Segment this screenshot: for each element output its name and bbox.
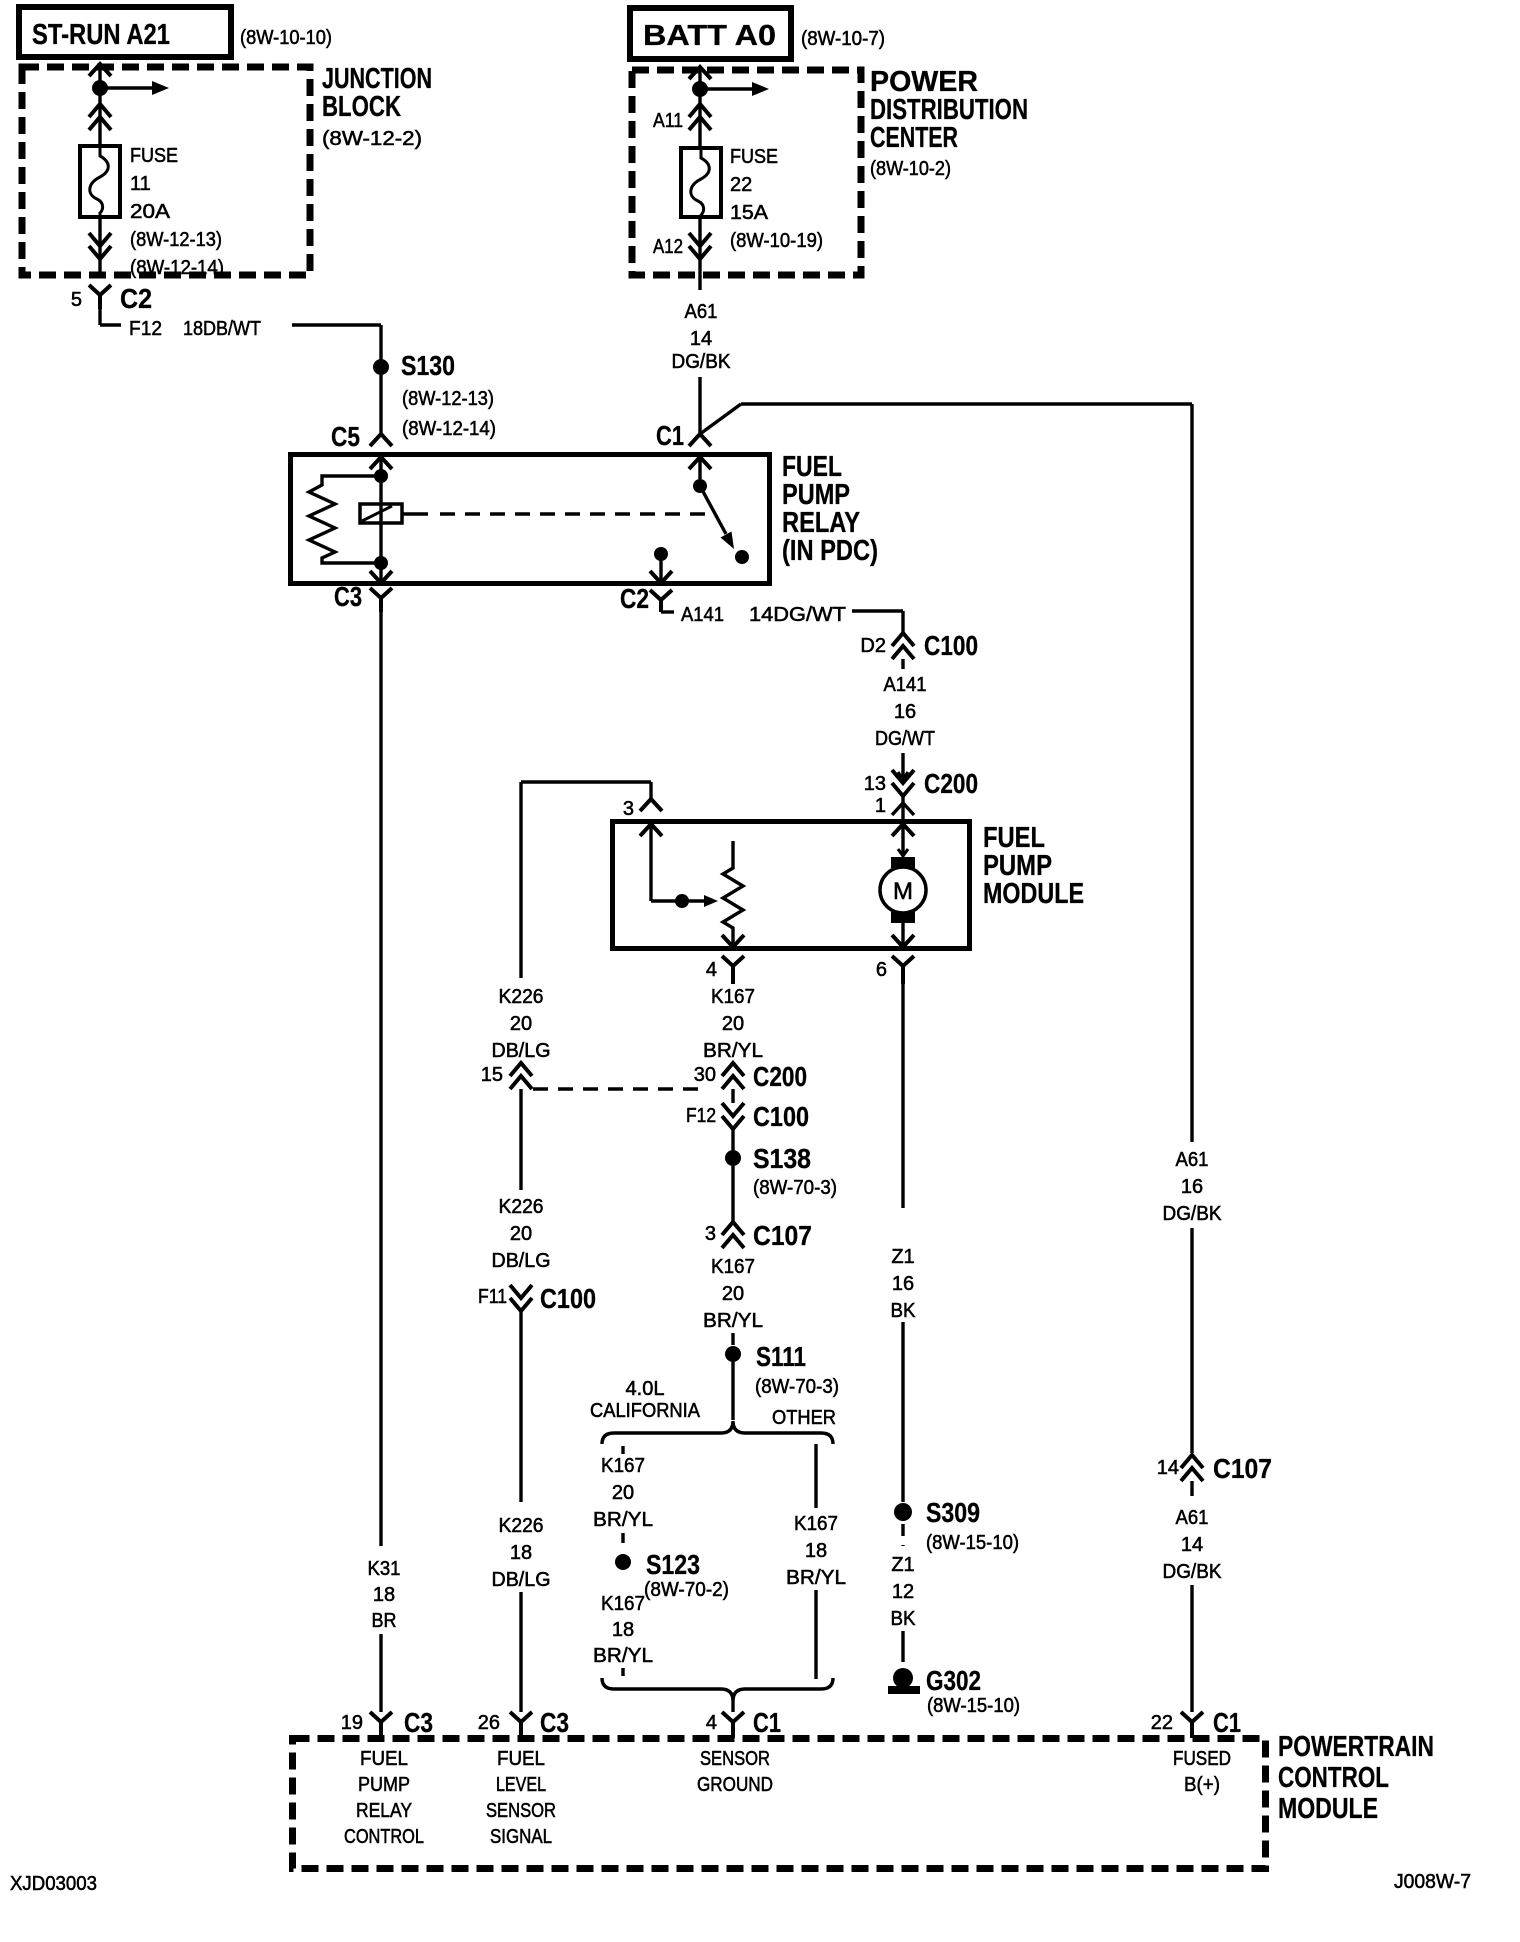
wire label DG/BK lower: [1163, 1561, 1223, 1583]
label PUMP at PCM pin 19: [358, 1774, 410, 1796]
wire K31 from relay C3 down: [379, 612, 382, 1546]
fuse 11 body: [80, 146, 120, 217]
svg-text:(IN PDC): (IN PDC): [782, 535, 878, 567]
svg-text:16: 16: [892, 1273, 914, 1295]
svg-text:J008W-7: J008W-7: [1394, 1871, 1471, 1893]
svg-text:A61: A61: [1176, 1507, 1209, 1529]
wire S130 to relay C5: [379, 375, 382, 434]
wire label 16: [894, 701, 916, 723]
svg-text:22: 22: [730, 174, 752, 196]
connector below PCM pin 26: [510, 1712, 532, 1738]
svg-text:Z1: Z1: [891, 1246, 914, 1268]
wire label BR/YL below S123: [593, 1645, 653, 1667]
pin 30 label: [694, 1064, 716, 1086]
svg-text:(8W-12-13): (8W-12-13): [130, 229, 222, 251]
svg-text:18DB/WT: 18DB/WT: [183, 318, 261, 340]
svg-text:PUMP: PUMP: [358, 1774, 410, 1796]
label LEVEL at PCM pin 26: [496, 1774, 546, 1796]
svg-text:F12: F12: [686, 1105, 716, 1127]
dashed connector link 15 to 30: [533, 1087, 708, 1090]
svg-text:5: 5: [71, 289, 82, 311]
connector chevrons C200 pin 13: [892, 770, 914, 796]
svg-text:FUEL: FUEL: [360, 1748, 408, 1770]
wire relay C2 contact to pin: [659, 554, 662, 583]
svg-text:A61: A61: [685, 301, 718, 323]
wire label DB/LG second: [492, 1250, 551, 1272]
wire label K226 third: [499, 1515, 544, 1537]
connector chevrons pin 15: [510, 1063, 532, 1089]
svg-text:S309: S309: [926, 1497, 980, 1528]
reference (8W-12-14): [130, 257, 224, 279]
svg-text:(8W-12-2): (8W-12-2): [322, 128, 422, 150]
dashed wire into S111: [731, 1333, 734, 1345]
label 4.0L: [626, 1378, 665, 1400]
svg-text:BR: BR: [372, 1610, 397, 1632]
wire label DG/WT: [875, 728, 935, 750]
svg-text:SENSOR: SENSOR: [700, 1748, 770, 1770]
wire label DG/BK: [672, 351, 732, 373]
pin 22 label: [1151, 1712, 1173, 1734]
svg-text:C107: C107: [1213, 1453, 1272, 1484]
svg-text:(8W-12-14): (8W-12-14): [402, 418, 496, 440]
label MODULE at module: [983, 878, 1084, 910]
svg-text:CONTROL: CONTROL: [344, 1826, 424, 1848]
svg-text:C3: C3: [404, 1707, 433, 1738]
wire below C107 pin 14: [1190, 1481, 1193, 1496]
svg-text:(8W-70-2): (8W-70-2): [644, 1579, 729, 1601]
svg-text:C100: C100: [924, 630, 978, 661]
pin 5 label: [71, 289, 82, 311]
wire ST-RUN feed into junction block: [98, 64, 101, 146]
connector chevrons above fuse 11: [89, 104, 111, 130]
svg-text:GROUND: GROUND: [697, 1774, 773, 1796]
connector name C200 at pin 13: [924, 768, 978, 799]
connector arrow relay pin C1: [689, 457, 711, 479]
label FUEL at PCM pin 26: [497, 1748, 545, 1770]
connector name C100 at F12: [753, 1101, 809, 1132]
relay switch arm: [700, 486, 734, 549]
svg-text:FUSE: FUSE: [730, 146, 778, 168]
label POWERTRAIN: [1278, 1731, 1434, 1763]
powertrain control module dashed boundary: [293, 1739, 1266, 1869]
svg-text:C3: C3: [540, 1707, 569, 1738]
svg-text:M: M: [893, 878, 913, 905]
label 15A: [730, 202, 769, 224]
wire label DB/LG: [492, 1040, 551, 1062]
connector name C107: [753, 1220, 812, 1251]
wire label K167 below pin 4: [711, 986, 755, 1008]
svg-text:4: 4: [706, 1712, 717, 1734]
label FUSE at fuse 22: [730, 146, 778, 168]
svg-text:6: 6: [876, 959, 887, 981]
wire to fuel pump motor: [898, 840, 908, 856]
svg-text:CENTER: CENTER: [870, 122, 958, 154]
connector below PCM pin 19: [370, 1712, 392, 1738]
svg-text:A141: A141: [884, 674, 927, 696]
wire S138 to C107: [731, 1166, 734, 1222]
fuel pump relay box: [291, 455, 770, 584]
svg-text:(8W-70-3): (8W-70-3): [753, 1177, 837, 1199]
splice S138: [725, 1150, 741, 1166]
svg-text:K226: K226: [499, 986, 544, 1008]
svg-text:K226: K226: [499, 1196, 544, 1218]
wire K226 mid segment: [519, 1089, 522, 1190]
wire Z1 to ground G302: [901, 1631, 904, 1662]
ground name G302: [926, 1665, 981, 1696]
connector stem C200 pin 1: [892, 796, 914, 819]
label FUSED at PCM pin 22: [1173, 1748, 1231, 1770]
pin 3 label: [623, 798, 634, 820]
wire label 18 on K31: [373, 1584, 395, 1606]
wire label 18 below S123: [612, 1619, 634, 1641]
svg-text:C1: C1: [656, 420, 684, 451]
svg-text:C1: C1: [753, 1707, 781, 1738]
connector name C3 at pin 19: [404, 1707, 433, 1738]
wire A61 branch to PCM fused B+: [700, 404, 1192, 1142]
wire fuse 11 output: [98, 217, 101, 276]
svg-text:LEVEL: LEVEL: [496, 1774, 546, 1796]
drawing number XJD03003: [10, 1873, 97, 1895]
wire label BR/YL other: [786, 1567, 846, 1589]
connector arrow module pin 6: [892, 935, 914, 947]
svg-text:C2: C2: [120, 283, 152, 314]
svg-text:C2: C2: [620, 583, 649, 614]
connector name C1 at pin 4: [753, 1707, 781, 1738]
wire fuse 22 output: [698, 217, 701, 290]
connector name C200 at pin 30: [753, 1061, 807, 1092]
label CONTROL at PCM pin 19: [344, 1826, 424, 1848]
svg-text:16: 16: [1181, 1176, 1203, 1198]
svg-text:30: 30: [694, 1064, 716, 1086]
label BATT A0: [643, 20, 776, 52]
connector name C1 at pin 22: [1213, 1707, 1241, 1738]
wire label 20 below C107: [722, 1283, 744, 1305]
wire label Z1: [891, 1246, 914, 1268]
splice name S123: [646, 1549, 700, 1580]
connector C1 wire end: [689, 434, 711, 446]
svg-text:RELAY: RELAY: [356, 1800, 412, 1822]
connector wire end module pin 3: [640, 799, 662, 811]
label 11: [130, 173, 151, 195]
relay coil wire: [379, 476, 382, 563]
svg-text:3: 3: [705, 1223, 716, 1245]
reference (8W-10-19): [730, 230, 823, 252]
svg-text:C5: C5: [331, 421, 360, 452]
svg-text:F12: F12: [129, 318, 162, 340]
dashed wire K167 California top: [621, 1446, 624, 1454]
node relay common contact: [693, 479, 707, 493]
svg-text:A61: A61: [1176, 1149, 1209, 1171]
wire branch arrow to other PDC circuits: [700, 82, 769, 96]
svg-text:DG/BK: DG/BK: [1163, 1203, 1223, 1225]
svg-text:CALIFORNIA: CALIFORNIA: [590, 1400, 701, 1422]
label CENTER: [870, 122, 958, 154]
svg-text:S130: S130: [401, 350, 455, 381]
label FUSE: [130, 145, 178, 167]
connector arrow module pin 3: [640, 824, 662, 840]
svg-text:OTHER: OTHER: [772, 1407, 836, 1429]
svg-text:B(+): B(+): [1184, 1774, 1220, 1796]
svg-text:(8W-70-3): (8W-70-3): [755, 1376, 839, 1398]
pin F11 label: [478, 1286, 507, 1308]
svg-text:F11: F11: [478, 1286, 507, 1308]
connector below PCM pin 4: [722, 1712, 744, 1738]
pin 6 label: [876, 959, 887, 981]
label 20A: [130, 201, 171, 223]
wire label DG/BK right: [1163, 1203, 1223, 1225]
fuse 22 body: [681, 148, 721, 217]
connector C2 junction block pin 5: [89, 285, 121, 325]
wire A141 into C200: [898, 753, 908, 779]
label SENSOR at PCM pin 26: [486, 1800, 556, 1822]
svg-text:Z1: Z1: [891, 1554, 914, 1576]
wire label 18 on K226: [510, 1542, 532, 1564]
pin 13 label: [864, 773, 886, 795]
wire below C100 D2: [901, 659, 904, 669]
svg-text:SIGNAL: SIGNAL: [490, 1826, 552, 1848]
svg-text:BR/YL: BR/YL: [703, 1310, 763, 1332]
connector name C1 at relay: [656, 420, 684, 451]
brace variant split: [602, 1421, 833, 1444]
wire label K167 below C107: [711, 1256, 755, 1278]
label OTHER: [772, 1407, 836, 1429]
svg-text:FUEL: FUEL: [497, 1748, 545, 1770]
svg-text:20: 20: [612, 1482, 634, 1504]
wire label 16 on Z1: [892, 1273, 914, 1295]
wire label 20 on K167: [722, 1013, 744, 1035]
wire label 14 lower: [1181, 1534, 1203, 1556]
node relay NC contact: [735, 550, 749, 564]
wire K167 other branch upper: [814, 1444, 817, 1508]
wire motor to module pin 6: [901, 923, 904, 947]
ground G302: [888, 1668, 920, 1694]
svg-text:A12: A12: [653, 236, 683, 258]
drawing number J008W-7: [1394, 1871, 1471, 1893]
svg-text:MODULE: MODULE: [983, 878, 1084, 910]
svg-text:C100: C100: [540, 1283, 596, 1314]
pin D2 label: [860, 635, 886, 657]
svg-text:C200: C200: [753, 1061, 807, 1092]
svg-text:C3: C3: [334, 581, 362, 612]
pin 4 label: [706, 959, 717, 981]
junction block dashed boundary: [22, 67, 310, 275]
svg-text:(8W-12-14): (8W-12-14): [130, 257, 224, 279]
label CALIFORNIA: [590, 1400, 701, 1422]
wire A61 to relay C1: [698, 377, 701, 434]
wire label 14: [690, 328, 712, 350]
svg-text:20: 20: [510, 1013, 532, 1035]
wire label K226 second: [499, 1196, 544, 1218]
svg-text:C100: C100: [753, 1101, 809, 1132]
svg-text:BK: BK: [891, 1608, 917, 1630]
node relay coil bottom: [374, 556, 388, 570]
wire label K167 California: [601, 1455, 645, 1477]
wire label A141 at relay: [681, 604, 724, 626]
wire label BR/YL: [703, 1040, 763, 1062]
wire between C200 and C100: [731, 1089, 734, 1103]
svg-text:K167: K167: [711, 986, 755, 1008]
wire label A141 below C100: [884, 674, 927, 696]
connector name C2 at relay: [620, 583, 649, 614]
wire label 20 on K226: [510, 1013, 532, 1035]
wire S111 to variant brace: [731, 1362, 734, 1420]
connector chevrons F11: [510, 1285, 532, 1311]
svg-text:D2: D2: [860, 635, 886, 657]
svg-text:K167: K167: [711, 1256, 755, 1278]
wire A61 to C107 pin 14: [1190, 1228, 1193, 1453]
connector arrow module pin 4: [722, 935, 744, 947]
connector chevrons C200 pin 30: [722, 1063, 744, 1089]
svg-text:22: 22: [1151, 1712, 1173, 1734]
svg-text:BATT A0: BATT A0: [643, 20, 776, 52]
svg-text:BR/YL: BR/YL: [593, 1509, 653, 1531]
pin 1 label: [875, 795, 886, 817]
label FUEL at PCM pin 19: [360, 1748, 408, 1770]
wire label K167 other: [794, 1513, 838, 1535]
node level sensor wiper bend: [675, 894, 689, 908]
svg-text:C200: C200: [924, 768, 978, 799]
connector chevrons below fuse 11: [89, 233, 111, 259]
svg-text:K167: K167: [794, 1513, 838, 1535]
svg-text:12: 12: [892, 1581, 914, 1603]
svg-text:ST-RUN A21: ST-RUN A21: [32, 19, 170, 51]
wire module pin 3 feed: [521, 782, 651, 799]
connector chevrons A11 above fuse 22: [689, 104, 711, 130]
reference (8W-15-10) at S309: [926, 1532, 1019, 1554]
label ST-RUN A21: [32, 19, 170, 51]
wire C100 to splice S138: [731, 1129, 734, 1150]
connector below PCM pin 22: [1181, 1712, 1203, 1738]
connector name C2: [120, 283, 152, 314]
connector chevrons A12 below fuse 22: [689, 233, 711, 259]
power feed box BATT A0: [630, 8, 791, 59]
svg-text:FUSE: FUSE: [130, 145, 178, 167]
svg-text:14DG/WT: 14DG/WT: [749, 604, 846, 626]
label JUNCTION: [322, 63, 432, 95]
wire branch arrow to other circuits: [100, 81, 169, 95]
connector name C100 at D2: [924, 630, 978, 661]
relay coil symbol: [360, 504, 402, 523]
svg-text:11: 11: [130, 173, 151, 195]
label SENSOR at PCM pin 4: [700, 1748, 770, 1770]
label B(+) at PCM pin 22: [1184, 1774, 1220, 1796]
connector name C5: [331, 421, 360, 452]
node relay C2 contact: [654, 547, 668, 561]
label POWER: [870, 66, 978, 98]
splice name S138: [753, 1143, 811, 1174]
connector below module pin 6: [892, 956, 914, 984]
connector chevrons C107 pin 14: [1181, 1455, 1203, 1481]
wire K226 lower segment: [519, 1311, 522, 1502]
svg-text:K226: K226: [499, 1515, 544, 1537]
wire label BR/YL California: [593, 1509, 653, 1531]
connector C2 below relay: [650, 590, 674, 612]
svg-text:S138: S138: [753, 1143, 811, 1174]
wire label A61 right: [1176, 1149, 1209, 1171]
relay coil actuator stub: [402, 512, 428, 515]
label MODULE at PCM: [1278, 1793, 1378, 1825]
node relay coil top: [374, 469, 388, 483]
wire level sensor wiper: [651, 840, 718, 907]
label CONTROL at PCM: [1278, 1762, 1389, 1794]
reference (8W-15-10) at G302: [927, 1695, 1020, 1717]
pin 26 label: [478, 1712, 500, 1734]
svg-text:16: 16: [894, 701, 916, 723]
pin A11 label: [653, 110, 683, 132]
splice name S130: [401, 350, 455, 381]
svg-text:15A: 15A: [730, 202, 769, 224]
wire label F12: [129, 318, 162, 340]
wire label DB/LG third: [492, 1569, 551, 1591]
resistor fuel level sensor: [723, 841, 743, 947]
wire label K31: [368, 1558, 401, 1580]
svg-text:G302: G302: [926, 1665, 981, 1696]
wire label BR: [372, 1610, 397, 1632]
reference (8W-10-2): [870, 158, 951, 180]
splice name S111: [756, 1341, 806, 1372]
connector name C100 at F11: [540, 1283, 596, 1314]
svg-text:POWERTRAIN: POWERTRAIN: [1278, 1731, 1434, 1763]
svg-text:XJD03003: XJD03003: [10, 1873, 97, 1895]
wire label A61 below PDC: [685, 301, 718, 323]
wire label 12 on Z1: [892, 1581, 914, 1603]
svg-text:DG/BK: DG/BK: [1163, 1561, 1223, 1583]
label DISTRIBUTION: [870, 94, 1028, 126]
connector arrow relay pin C3: [370, 563, 392, 583]
wire K226 to PCM pin 26: [519, 1592, 522, 1712]
pin 14 label: [1157, 1457, 1179, 1479]
connector C3 below relay: [370, 588, 392, 612]
connector name C3 at pin 26: [540, 1707, 569, 1738]
pin 19 label: [341, 1712, 363, 1734]
svg-text:CONTROL: CONTROL: [1278, 1762, 1389, 1794]
svg-text:DB/LG: DB/LG: [492, 1569, 551, 1591]
svg-text:13: 13: [864, 773, 886, 795]
svg-text:18: 18: [612, 1619, 634, 1641]
wire A61 to PCM pin 22: [1190, 1585, 1193, 1712]
wire BATT feed into PDC: [698, 67, 701, 148]
node junction in PDC: [692, 81, 708, 97]
fuel pump module box: [613, 822, 970, 949]
svg-text:(8W-10-2): (8W-10-2): [870, 158, 951, 180]
svg-text:15: 15: [481, 1064, 503, 1086]
wire label BK: [891, 1300, 917, 1322]
wire Z1 to splice S309: [901, 1322, 904, 1502]
wire label 20 second: [510, 1223, 532, 1245]
connector arrow module pin 1: [892, 824, 914, 840]
svg-text:14: 14: [690, 328, 712, 350]
svg-text:MODULE: MODULE: [1278, 1793, 1378, 1825]
wire K226 from module pin 3 down: [519, 782, 522, 978]
label (IN PDC): [782, 535, 878, 567]
svg-text:(8W-10-19): (8W-10-19): [730, 230, 823, 252]
dashed wire S123 to brace: [621, 1668, 624, 1679]
splice S309: [894, 1503, 912, 1521]
wire label BK second: [891, 1608, 917, 1630]
motor M fuel pump: [880, 857, 926, 923]
svg-text:(8W-10-10): (8W-10-10): [240, 27, 332, 49]
svg-text:A11: A11: [653, 110, 683, 132]
label FUEL at relay: [782, 451, 842, 483]
connector arrow relay pin C2: [650, 571, 672, 583]
pin F12 label: [686, 1105, 716, 1127]
svg-text:BLOCK: BLOCK: [322, 91, 401, 123]
svg-text:K167: K167: [601, 1455, 645, 1477]
connector arrow into PDC: [689, 67, 711, 79]
wire Z1 from module pin 6: [901, 984, 904, 1208]
svg-text:BK: BK: [891, 1300, 917, 1322]
connector name C3 at relay: [334, 581, 362, 612]
